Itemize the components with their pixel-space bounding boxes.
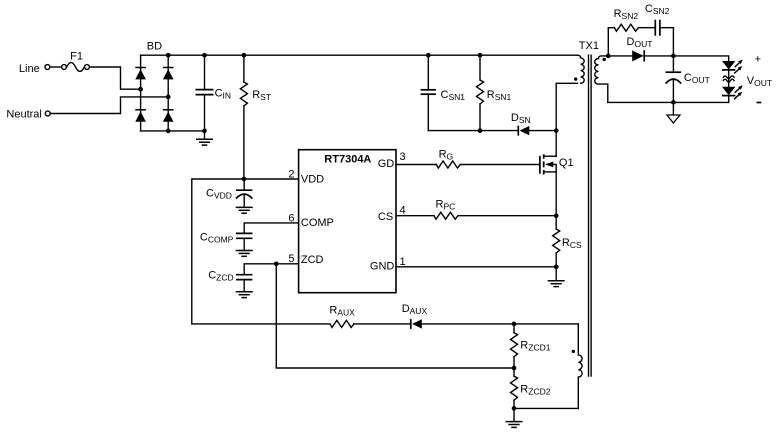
ground below CIN bbox=[196, 131, 213, 145]
svg-text:Line: Line bbox=[19, 63, 40, 75]
node secondary output junction bbox=[606, 54, 611, 59]
node CSN1 top bus junction bbox=[426, 53, 431, 58]
svg-text:Q1: Q1 bbox=[559, 157, 574, 169]
wire output bottom rail bbox=[608, 101, 729, 103]
transformer TX1 primary phase dot bbox=[574, 77, 577, 80]
terminal Neutral bbox=[6, 108, 50, 120]
node ground junction bbox=[554, 264, 559, 269]
svg-text:CZCD: CZCD bbox=[208, 269, 233, 282]
node COUT top junction bbox=[671, 54, 676, 59]
diode DOUT bbox=[627, 36, 653, 62]
diode DSN bbox=[511, 112, 531, 136]
fuse F1 bbox=[62, 50, 90, 71]
wire Neutral terminal to bridge right mid node bbox=[50, 97, 168, 114]
node bottom bus junctions bbox=[166, 129, 171, 134]
LED D1 bbox=[722, 60, 743, 73]
wire rectified DC top bus bbox=[141, 54, 578, 56]
svg-text:CS: CS bbox=[378, 211, 393, 223]
ground below RZCD2 bbox=[506, 408, 523, 427]
wire RPC to Q1 source node bbox=[458, 215, 556, 217]
svg-text:DAUX: DAUX bbox=[402, 303, 428, 316]
svg-text:COUT: COUT bbox=[684, 72, 710, 85]
svg-text:RG: RG bbox=[439, 149, 454, 162]
svg-text:RCS: RCS bbox=[562, 237, 582, 250]
wire fuse to bridge left mid node bbox=[90, 67, 141, 89]
svg-text:RZCD1: RZCD1 bbox=[520, 339, 550, 352]
svg-text:ZCD: ZCD bbox=[301, 254, 324, 266]
resistor RZCD1 bbox=[511, 324, 551, 368]
wire VDD rail from IC pin 2 left and down to aux row bbox=[192, 179, 330, 324]
node snubber bottom junction bbox=[478, 128, 483, 133]
svg-text:6: 6 bbox=[288, 212, 294, 224]
wire secondary to DOUT anode bbox=[608, 55, 632, 57]
wire ZCD pin 5 to CZCD bbox=[244, 264, 298, 275]
node ZCD junction bbox=[274, 261, 279, 266]
svg-text:RSN2: RSN2 bbox=[614, 8, 639, 21]
wire CSN2 right leg down to output bbox=[660, 28, 673, 56]
LED D2 bbox=[722, 85, 743, 98]
resistor RZCD2 bbox=[511, 368, 551, 408]
svg-text:DOUT: DOUT bbox=[627, 36, 653, 49]
capacitor CSN2 bbox=[645, 3, 670, 36]
svg-text:VOUT: VOUT bbox=[747, 75, 772, 88]
transistor Q1 N-MOSFET bbox=[540, 154, 574, 174]
wire ZCD junction down to RZCD divider tap bbox=[276, 264, 514, 368]
svg-text:CCOMP: CCOMP bbox=[200, 231, 234, 244]
wire GD pin 3 to RG bbox=[396, 164, 436, 166]
svg-text:COMP: COMP bbox=[301, 217, 334, 229]
wire GND pin 1 to RCS bottom bbox=[396, 266, 556, 268]
capacitor CCOMP bbox=[200, 231, 253, 250]
wire Line terminal to fuse bbox=[50, 66, 62, 68]
wire aux winding bottom bbox=[514, 407, 578, 409]
node VDD junction at RST and CVDD bbox=[242, 177, 247, 182]
wire Q1 source down to CS node bbox=[555, 172, 557, 216]
svg-text:GD: GD bbox=[378, 158, 395, 170]
node aux bottom junction bbox=[512, 406, 517, 411]
capacitor CIN bbox=[196, 55, 232, 131]
wire DAUX anode to aux winding top bbox=[422, 323, 579, 325]
svg-text:RPC: RPC bbox=[436, 198, 456, 211]
node VOUT minus label bbox=[757, 102, 762, 104]
svg-text:2: 2 bbox=[288, 168, 294, 180]
resistor RG bbox=[436, 149, 460, 168]
node CS sense junction bbox=[554, 213, 559, 218]
node drain snubber junction bbox=[554, 128, 559, 133]
capacitor CZCD bbox=[208, 269, 252, 292]
transformer TX1 core bbox=[589, 55, 592, 376]
svg-text:BD: BD bbox=[147, 40, 162, 52]
ground below CCOMP bbox=[236, 251, 253, 257]
svg-text:DSN: DSN bbox=[511, 112, 531, 125]
node aux top junction bbox=[512, 322, 517, 327]
svg-text:Neutral: Neutral bbox=[6, 108, 41, 120]
op-amp U1 RT7304A controller IC bbox=[299, 150, 396, 293]
node ZCD divider tap junction bbox=[512, 366, 517, 371]
terminal Line bbox=[19, 63, 50, 75]
node series LED continuation marks bbox=[723, 76, 734, 82]
svg-text:5: 5 bbox=[288, 253, 294, 265]
capacitor COUT bbox=[666, 56, 710, 103]
wire RG to gate of Q1 bbox=[460, 164, 539, 166]
bridge rectifier BD bbox=[135, 40, 173, 131]
capacitor CVDD bbox=[206, 179, 252, 207]
wire Q1 drain up to transformer primary bottom bbox=[556, 83, 577, 156]
svg-text:CVDD: CVDD bbox=[206, 187, 232, 200]
wire CS pin 4 to RPC bbox=[396, 215, 434, 217]
ground below CVDD bbox=[236, 207, 253, 213]
wire between LEDs bbox=[728, 70, 730, 87]
wire LED string bottom bbox=[728, 96, 730, 103]
wire snubber bottom to DSN cathode bbox=[428, 130, 518, 132]
svg-text:RSN1: RSN1 bbox=[487, 89, 512, 102]
svg-text:TX1: TX1 bbox=[579, 40, 599, 52]
svg-text:CSN1: CSN1 bbox=[441, 89, 466, 102]
resistor RSN1 bbox=[477, 55, 512, 130]
transformer TX1 auxiliary phase dot bbox=[572, 350, 575, 353]
transformer TX1 secondary winding bbox=[595, 56, 609, 103]
node bridge left mid junction bbox=[138, 87, 143, 92]
transformer TX1 primary winding bbox=[577, 55, 584, 83]
svg-text:RT7304A: RT7304A bbox=[324, 154, 371, 166]
resistor RSN2 bbox=[614, 8, 639, 31]
svg-text:3: 3 bbox=[400, 151, 406, 163]
resistor RCS bbox=[553, 216, 582, 267]
ground arrow below COUT bbox=[667, 102, 680, 123]
node RSN1 top bus junction bbox=[478, 53, 483, 58]
svg-text:GND: GND bbox=[370, 261, 395, 273]
resistor RAUX bbox=[329, 305, 355, 328]
transformer TX1 auxiliary winding bbox=[578, 324, 582, 409]
resistor RPC bbox=[434, 198, 458, 219]
svg-text:+: + bbox=[755, 54, 761, 66]
resistor RST bbox=[240, 55, 271, 179]
diode DAUX bbox=[402, 303, 428, 329]
capacitor CSN1 bbox=[421, 55, 466, 130]
wire bridge bottom bus bbox=[141, 130, 205, 132]
svg-text:RZCD2: RZCD2 bbox=[520, 383, 550, 396]
svg-text:RST: RST bbox=[252, 89, 271, 102]
wire DOUT cathode to LED string top bbox=[644, 56, 729, 61]
wire secondary snubber left leg bbox=[608, 28, 614, 56]
wire COMP pin 6 to CCOMP bbox=[244, 223, 298, 233]
svg-text:VDD: VDD bbox=[301, 173, 324, 185]
ground below RCS bbox=[548, 267, 565, 287]
svg-text:RAUX: RAUX bbox=[329, 305, 355, 318]
ground below CZCD bbox=[236, 292, 253, 298]
wire RSN2 to CSN2 bbox=[638, 27, 655, 29]
svg-text:F1: F1 bbox=[70, 50, 83, 62]
wire RAUX to DAUX cathode bbox=[354, 323, 411, 325]
node COUT bottom junction bbox=[671, 100, 676, 105]
svg-text:CSN2: CSN2 bbox=[645, 3, 670, 16]
node bridge right mid junction bbox=[166, 95, 171, 100]
svg-text:4: 4 bbox=[400, 204, 406, 216]
svg-text:CIN: CIN bbox=[215, 88, 231, 101]
node top bus junctions bbox=[166, 53, 171, 58]
wire DSN anode to drain node bbox=[529, 130, 556, 132]
transformer TX1 secondary phase dot bbox=[603, 58, 606, 61]
